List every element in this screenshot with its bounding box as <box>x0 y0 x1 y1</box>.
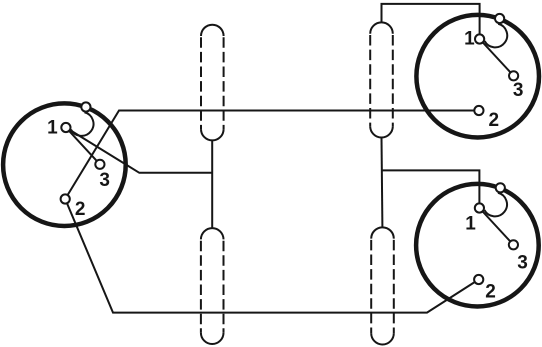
cable 1 shield jacket at left end, bottom cap <box>201 129 224 140</box>
wire W6: right shield bus to bottom-right XLR pin 1 <box>382 170 480 208</box>
J1 pin 1 <box>61 123 70 132</box>
wire W1: left XLR pin 2 to top-right XLR pin 2 (hot conductor, cable 1) <box>65 111 479 200</box>
XLR connector J2 (top right) shell circle <box>416 15 539 138</box>
J1 shell ground tab <box>81 102 90 111</box>
J1 ground arc pin1 to shell tab <box>71 112 94 136</box>
cable 1 shield jacket at right end, dashed sides <box>370 34 393 127</box>
cable 1 shield jacket at left end (dashed capsule), top cap <box>201 25 224 36</box>
cable 1 shield jacket at right end, top cap <box>370 22 393 33</box>
J2 pin 1 <box>475 34 484 43</box>
J3 pin 2 <box>474 275 483 284</box>
J1 pin 2 <box>61 194 70 203</box>
cable 2 shield jacket at right end, bottom cap <box>371 333 394 344</box>
cable 2 shield jacket at left end, bottom cap <box>201 333 224 344</box>
J3 pin 1 <box>475 203 484 212</box>
svg-text:3: 3 <box>99 170 110 191</box>
J3 pin 3 <box>509 240 518 249</box>
J2 pin 2 <box>474 106 483 115</box>
J2 pin 3 <box>509 71 518 80</box>
cable 1 shield jacket at right end, bottom cap <box>370 126 393 137</box>
J1 pin 3 <box>95 160 104 169</box>
svg-text:1: 1 <box>47 118 58 139</box>
J1 jumper wire pin1 to pin3 <box>66 128 100 165</box>
J2 jumper wire pin1 to pin3 <box>480 39 514 76</box>
wire W5: right shield bus vertical (joins cable shields) <box>381 138 384 228</box>
wire W2: left XLR pin 2 to bottom-right XLR pin 2 (hot conductor, cable 2) <box>65 199 479 313</box>
cable 1 shield jacket at left end, dashed sides <box>201 36 224 129</box>
svg-text:1: 1 <box>465 214 476 235</box>
XLR connector J1 (left) shell circle <box>3 103 126 226</box>
svg-text:1: 1 <box>464 29 475 50</box>
J3 shell ground tab <box>496 183 505 192</box>
svg-text:2: 2 <box>489 110 500 131</box>
svg-text:3: 3 <box>517 252 528 273</box>
J3 ground arc pin1 to shell tab <box>484 193 507 217</box>
XLR connector J3 (bottom right) shell circle <box>416 184 539 307</box>
svg-text:3: 3 <box>513 80 524 101</box>
cable 2 shield jacket at left end, dashed sides <box>201 239 224 332</box>
svg-text:2: 2 <box>485 281 496 302</box>
svg-text:2: 2 <box>75 199 86 220</box>
J2 shell ground tab <box>495 14 504 23</box>
wire W7: cable 1 shield to top-right XLR pin 1 <box>382 4 480 39</box>
J2 ground arc pin1 to shell tab <box>485 24 508 48</box>
cable 2 shield jacket at left end, top cap <box>201 228 224 239</box>
cable 2 shield jacket at right end, top cap <box>371 227 394 238</box>
J3 jumper wire pin1 to pin3 <box>479 208 513 245</box>
wire W3: left XLR pin 1 to left shield bus <box>66 128 212 173</box>
wire W4: left shield bus vertical (joins cable 1 and cable 2 shields) <box>211 140 213 228</box>
cable 2 shield jacket at right end, dashed sides <box>371 239 394 334</box>
